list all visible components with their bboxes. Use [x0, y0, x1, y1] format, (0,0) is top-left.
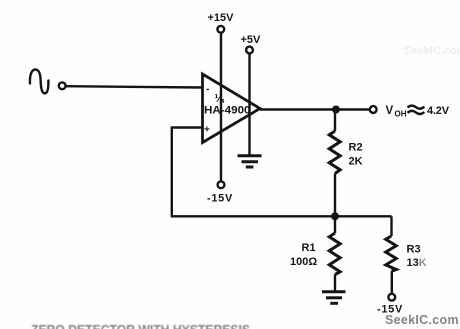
svg-text:V: V — [386, 105, 394, 117]
resistor R2 — [329, 131, 340, 174]
ground (below R1) — [322, 292, 346, 304]
op-amp U1 HA-4900 (1/4) — [203, 74, 261, 143]
+15V supply terminal — [217, 26, 224, 33]
wire: +5V terminal down through op-amp to ground — [248, 53, 250, 155]
svg-text:-15V: -15V — [207, 193, 233, 205]
wire: feedback from non-inverting input — [172, 128, 392, 217]
svg-text:2K: 2K — [349, 156, 363, 168]
svg-text:-: - — [206, 84, 209, 95]
wire: R2 bottom to feedback node — [334, 174, 336, 217]
svg-text:SeekIC.com: SeekIC.com — [404, 45, 460, 57]
-15V supply terminal (op-amp negative rail) — [218, 181, 225, 188]
svg-text:OH: OH — [395, 110, 407, 119]
svg-text:4.2V: 4.2V — [427, 105, 450, 117]
svg-text:+: + — [204, 125, 210, 136]
wire: +15V terminal down through op-amp to -15V terminal — [220, 33, 222, 182]
wire: R1 bottom to ground — [334, 275, 336, 292]
wire: junction down to R1 — [334, 216, 336, 233]
node: output junction — [332, 106, 340, 114]
svg-text:¼: ¼ — [215, 93, 225, 105]
AC input source V1 (sine symbol) — [30, 70, 48, 94]
svg-text:SeekIC.com: SeekIC.com — [385, 313, 459, 327]
svg-text:R2: R2 — [349, 142, 363, 154]
resistor R1 — [329, 233, 340, 275]
node: feedback junction — [331, 212, 339, 220]
ground (below +5V pin) — [238, 156, 262, 167]
svg-text:13K: 13K — [407, 257, 427, 269]
wire: op-amp output to output terminal — [260, 108, 370, 110]
wire: feedback wire right end down to R3 — [390, 216, 392, 236]
svg-text:R1: R1 — [302, 242, 316, 254]
-15V supply terminal (R3) — [388, 294, 395, 301]
wire: input terminal to op-amp inverting input — [66, 86, 203, 87]
input terminal — [59, 82, 66, 89]
svg-text:ZERO DETECTOR WITH HYSTERESIS: ZERO DETECTOR WITH HYSTERESIS — [31, 322, 250, 329]
wire: output junction down to R2 — [334, 110, 336, 132]
wire: R3 bottom to -15V terminal — [391, 271, 393, 294]
svg-text:HA-4900: HA-4900 — [204, 105, 251, 117]
svg-text:+15V: +15V — [208, 12, 235, 24]
label VOH ~= 4.2V — [386, 105, 450, 119]
resistor R3 — [386, 236, 397, 271]
svg-text:+5V: +5V — [241, 34, 262, 46]
+5V supply terminal — [246, 47, 253, 54]
output terminal — [370, 106, 377, 113]
svg-text:R3: R3 — [407, 244, 421, 256]
svg-text:100Ω: 100Ω — [290, 256, 317, 268]
